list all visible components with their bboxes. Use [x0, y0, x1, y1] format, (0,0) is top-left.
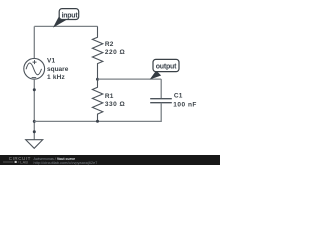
flag input box	[59, 9, 78, 20]
node dot below V1	[33, 88, 36, 91]
resistor R1	[92, 79, 102, 121]
svg-text:330 Ω: 330 Ω	[105, 101, 125, 108]
wire output corner down to C1	[160, 79, 162, 99]
wire C1 bottom	[34, 103, 161, 122]
flag output pointer	[151, 71, 161, 79]
svg-text:C1: C1	[174, 93, 183, 100]
svg-text:output: output	[156, 63, 177, 70]
svg-text:R1: R1	[105, 93, 114, 100]
capacitor C1	[150, 99, 172, 103]
wire output horizontal	[98, 78, 162, 80]
svg-text:220 Ω: 220 Ω	[105, 49, 125, 56]
svg-text:100 nF: 100 nF	[173, 101, 197, 108]
wire V1 bottom vertical	[33, 79, 35, 139]
wire left vertical to V1 top	[33, 26, 35, 58]
svg-text:square: square	[47, 66, 69, 73]
V1 labels	[47, 58, 69, 82]
svg-text:R2: R2	[105, 41, 114, 48]
ground	[26, 140, 43, 149]
node dot above ground	[33, 130, 36, 133]
svg-text:LAB: LAB	[20, 161, 28, 165]
voltage source V1	[24, 58, 45, 79]
svg-text:1 kHz: 1 kHz	[47, 74, 66, 81]
flag input pointer	[54, 14, 67, 27]
resistor R2	[92, 26, 102, 79]
node dot at ground rail junction	[33, 120, 36, 123]
node A (R2/R1/output junction)	[96, 78, 99, 81]
svg-text:input: input	[62, 12, 79, 19]
watermark logo LAB row	[3, 161, 28, 165]
C1 labels	[173, 93, 197, 109]
wire top horizontal (input net)	[34, 25, 97, 27]
svg-text:V1: V1	[47, 58, 56, 65]
node B (R1 bottom / rail junction)	[96, 120, 99, 123]
R1 labels	[105, 93, 125, 108]
svg-text:http://circuitlab.com/c/cvpyaa: http://circuitlab.com/c/cvpyaaxaj62e7	[34, 161, 98, 165]
R2 labels	[105, 41, 125, 56]
watermark bar	[0, 155, 220, 165]
flag output box	[153, 59, 179, 71]
